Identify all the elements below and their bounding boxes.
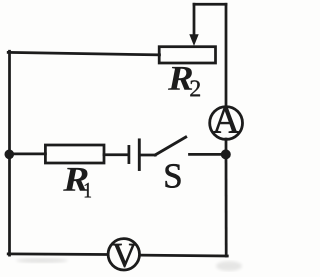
wire bottom right horizontal [141,254,228,258]
battery short plate (negative) [128,146,131,162]
label S (switch) [166,164,181,188]
wire top-left horizontal [8,52,159,55]
wire switch to node [190,153,223,156]
voltmeter letter V [112,244,136,267]
scan smudge bottom-right [216,261,242,271]
label R2 : subscript 2 [190,80,200,96]
junction node left [5,150,15,160]
wire battery to switch pivot [141,154,156,157]
wire ammeter to node [225,139,228,155]
scan smudge bottom-left [16,258,68,263]
wire node to R1 [9,153,45,156]
resistor R1 body [45,145,104,163]
ammeter letter A [213,108,240,133]
wire top loop horizontal [194,3,226,6]
switch S blade [155,137,185,155]
rheostat R2 wiper wire vertical [193,4,196,36]
rheostat wiper arrowhead [189,34,198,46]
battery long plate (positive) [138,140,141,170]
junction node right [221,149,231,159]
label R2 : letter R (italic) [168,67,192,90]
label R1 : subscript 1 [85,183,91,198]
rheostat R2 body [159,47,215,63]
label R1 : letter R (italic) [63,168,88,191]
voltmeter V circle [108,239,139,270]
wire node to bottom right corner vertical [225,155,228,257]
wire R1 to battery [104,153,128,156]
ammeter A circle [210,107,243,140]
wire left vertical [8,51,11,255]
wire right vertical upper [225,4,228,106]
wire bottom left horizontal [8,253,107,256]
